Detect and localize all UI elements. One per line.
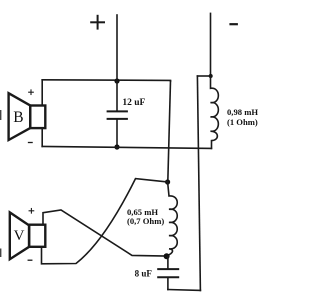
scan speck left edge lower	[0, 249, 1, 258]
node C (minus junction)	[209, 74, 213, 78]
scan speck left edge upper	[0, 110, 1, 120]
plus terminal	[91, 16, 104, 29]
node E (tweeter bottom)	[164, 253, 170, 259]
capacitor C2 8 uF	[158, 256, 178, 289]
wire minus junction	[197, 75, 210, 77]
svg-text:(0,7 Ohm): (0,7 Ohm)	[127, 216, 164, 226]
label B plus	[29, 90, 34, 95]
svg-text:12 uF: 12 uF	[122, 98, 145, 108]
svg-text:(1 Ohm): (1 Ohm)	[227, 117, 258, 127]
label V minus	[28, 259, 32, 261]
label V plus	[29, 209, 34, 214]
wire 8uF bottom to minus branch	[168, 289, 201, 292]
node D (tweeter top)	[165, 179, 170, 184]
wire V minus (to tweeter top node)	[42, 179, 168, 264]
wire speaker B bottom	[41, 128, 43, 146]
wire V plus (to tweeter bottom node)	[43, 210, 167, 256]
capacitor C1 12 uF	[108, 81, 127, 147]
wire top rail	[42, 80, 170, 81]
inductor L1 0.98 mH	[211, 76, 219, 148]
wire - input	[210, 13, 212, 76]
label B minus	[29, 142, 33, 144]
svg-text:0,98 mH: 0,98 mH	[227, 107, 258, 117]
node B (bottom rail junction)	[114, 144, 119, 149]
wire bottom rail	[42, 146, 211, 148]
svg-text:B: B	[13, 109, 23, 126]
wire speaker B top	[41, 80, 43, 106]
minus terminal	[231, 23, 237, 25]
node A (+ rail junction)	[114, 78, 119, 83]
wire tweeter feed (from top rail down)	[168, 81, 171, 182]
svg-text:V: V	[14, 228, 25, 244]
wire minus branch (down right side)	[197, 76, 200, 290]
speaker B	[9, 93, 46, 140]
svg-text:8 uF: 8 uF	[135, 268, 153, 278]
wire + input	[116, 15, 118, 81]
inductor L2 0.65 mH	[167, 182, 178, 256]
speaker V	[10, 212, 46, 259]
